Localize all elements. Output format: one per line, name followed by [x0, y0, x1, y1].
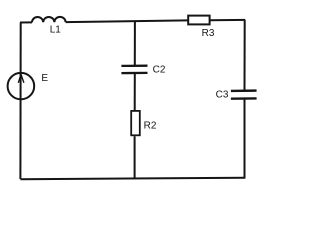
wire: top segment before coil: [20, 21, 32, 23]
wire: bottom: [20, 178, 245, 179]
wire: top right (R3 to corner): [210, 19, 245, 21]
svg-text:L1: L1: [50, 25, 62, 36]
svg-text:E: E: [41, 73, 48, 84]
capacitor C3: [231, 91, 257, 99]
wire: middle vertical between C2 and R2: [134, 74, 136, 111]
wire: right vertical lower (C3 to bottom corner): [244, 100, 246, 179]
inductor L1: [32, 17, 66, 23]
svg-text:R2: R2: [144, 121, 157, 132]
resistor R3: [188, 16, 209, 25]
capacitor C2: [121, 66, 147, 73]
svg-text:R3: R3: [202, 28, 215, 39]
resistor R2: [131, 111, 140, 135]
svg-text:C3: C3: [216, 89, 229, 100]
svg-text:C2: C2: [153, 65, 166, 76]
wire: middle vertical upper (top wire to C2): [134, 21, 136, 66]
source arrow: [18, 74, 24, 82]
wire: left vertical (top corner to bottom corner): [19, 23, 21, 180]
wire: right vertical upper (corner to C3): [244, 20, 246, 90]
voltage source E (circle): [8, 73, 35, 99]
wire: top middle (coil to R3): [66, 20, 188, 22]
wire: middle vertical lower (R2 to bottom wire): [134, 136, 136, 178]
